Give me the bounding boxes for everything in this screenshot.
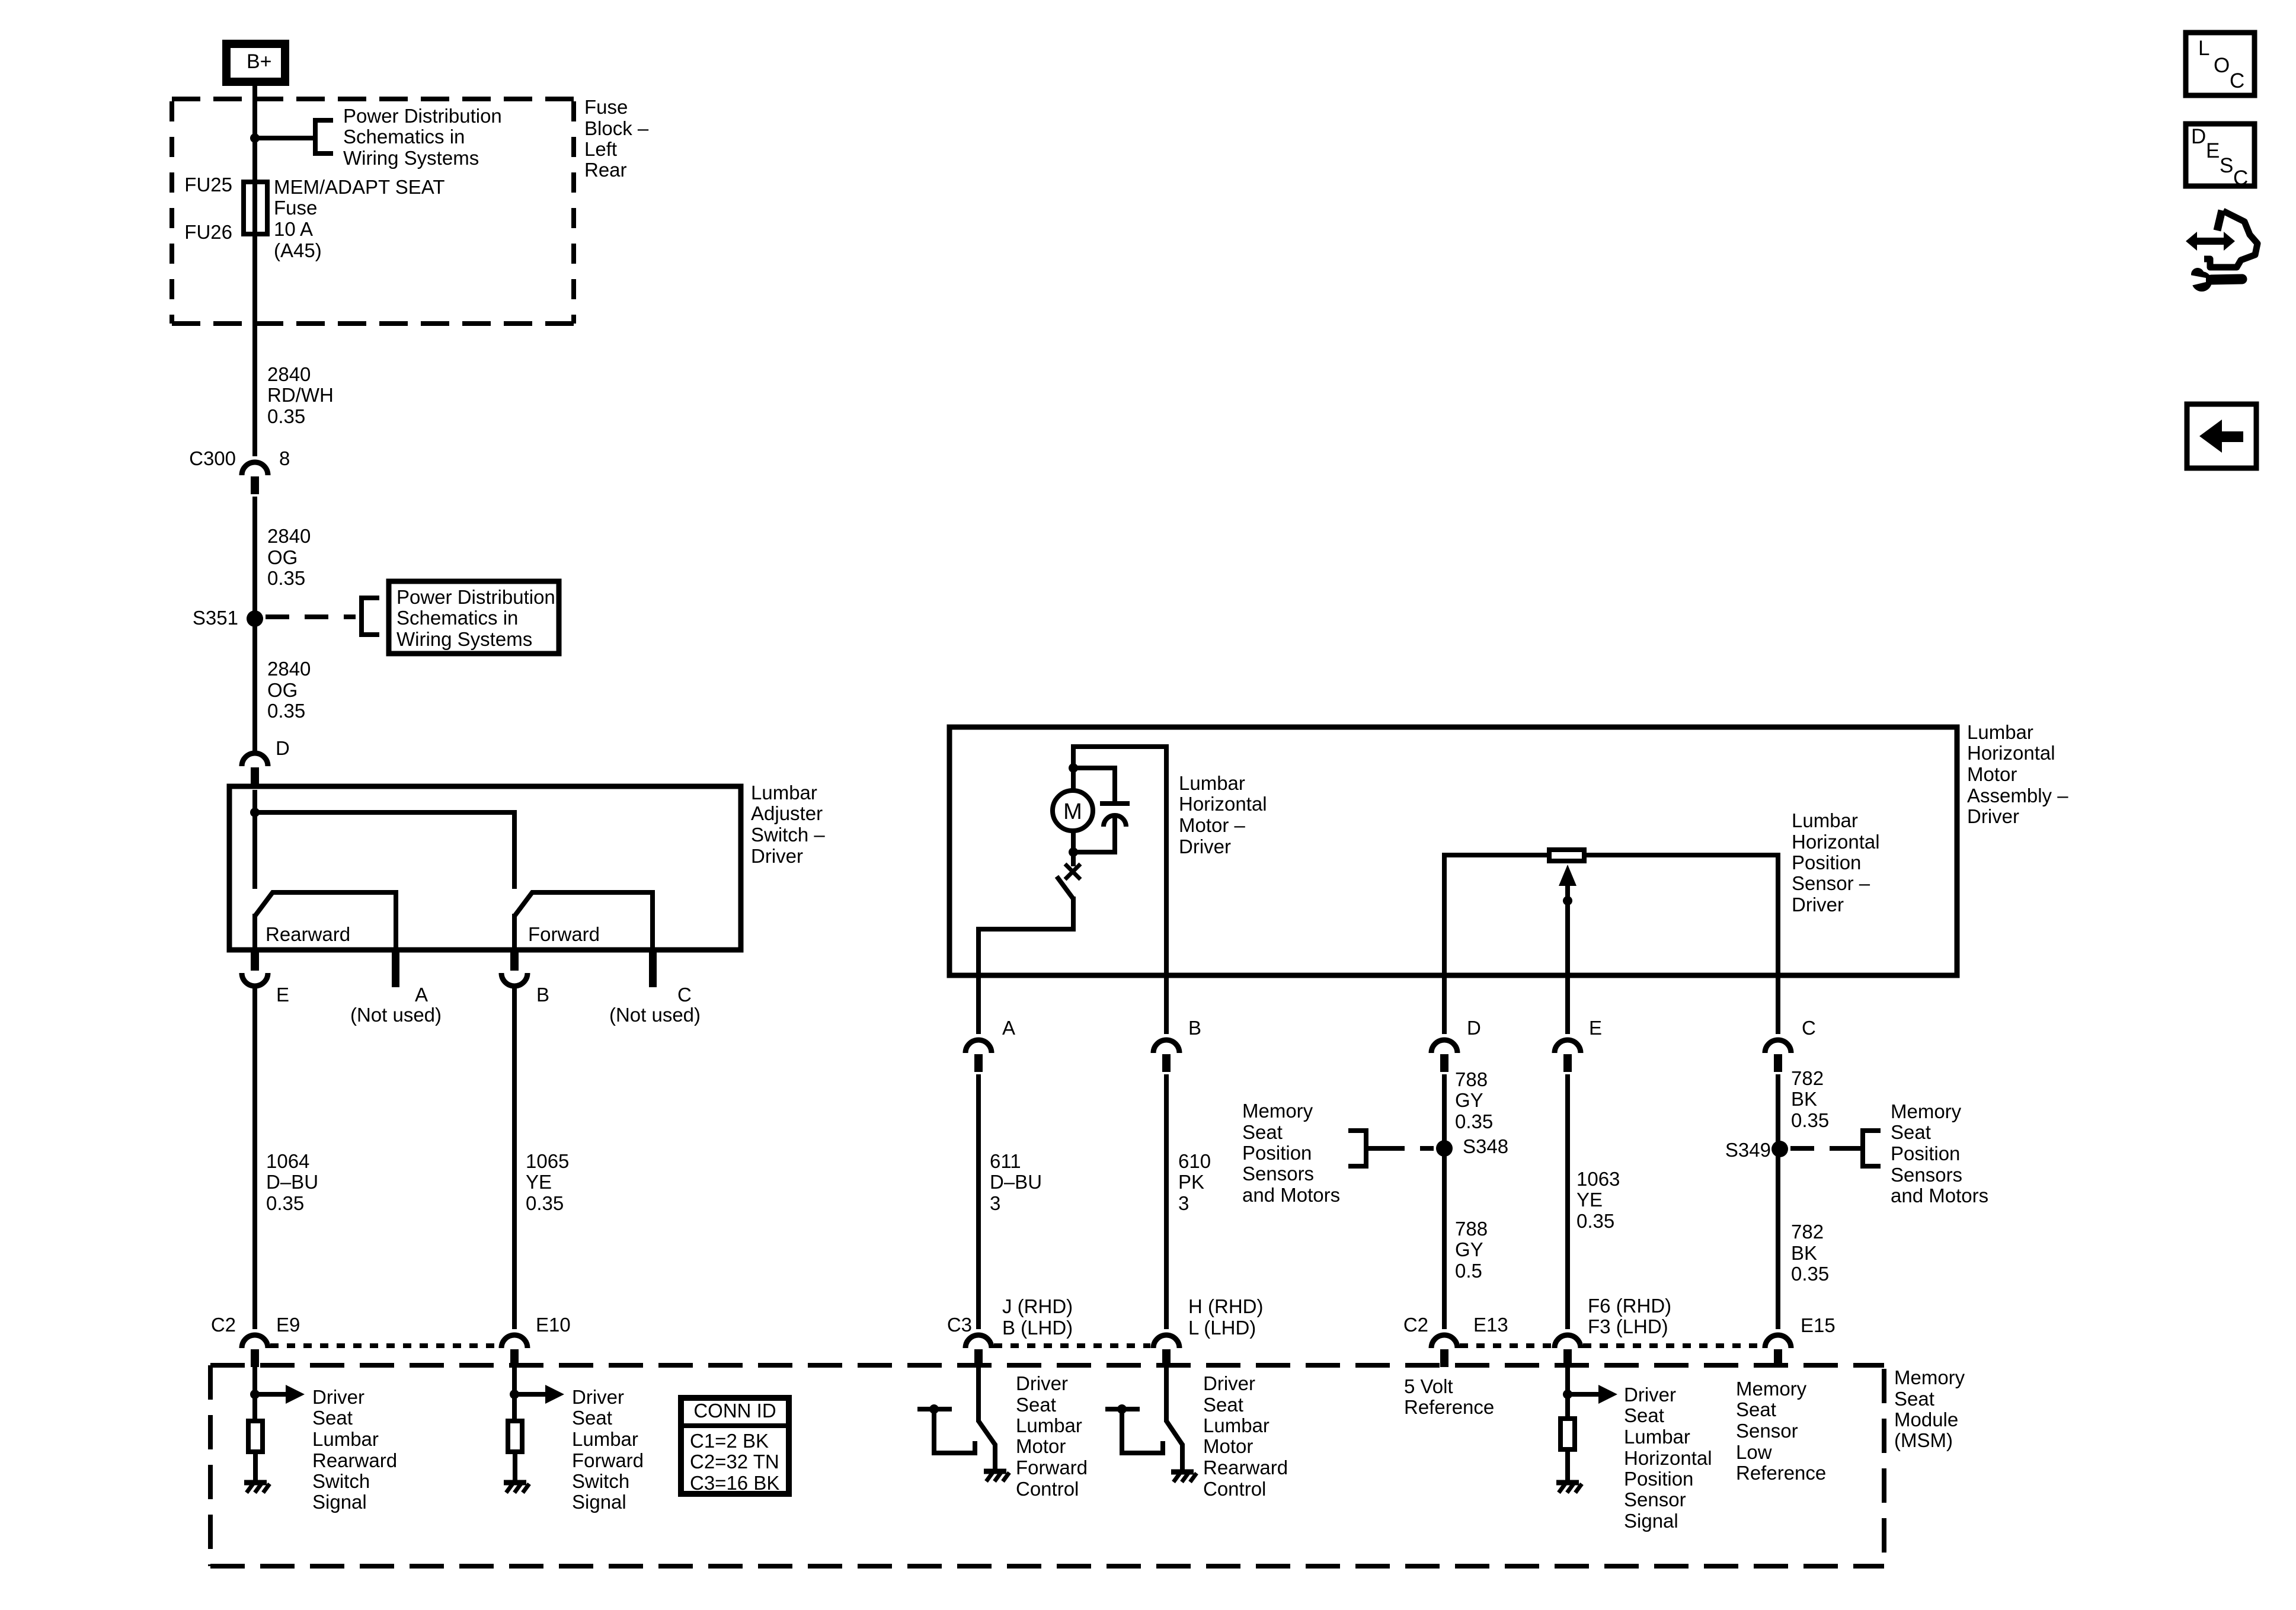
forward blade to pin B: [512, 914, 517, 948]
connector pin D of motor assembly: [1431, 1040, 1457, 1053]
wire B to MSM connector E10: [512, 985, 517, 1329]
wire resistor to ground: [1565, 1452, 1570, 1481]
svg-text:Power Distribution: Power Distribution: [343, 105, 502, 127]
pin A stub (not used): [392, 950, 399, 987]
svg-text:Rearward: Rearward: [312, 1449, 397, 1471]
svg-text:C: C: [2230, 69, 2244, 92]
junction dot E10: [510, 1390, 519, 1399]
svg-text:Lumbar: Lumbar: [1967, 721, 2033, 743]
svg-text:GY: GY: [1455, 1238, 1483, 1260]
B+ battery terminal: [226, 44, 285, 82]
ground E10: [504, 1480, 526, 1486]
svg-text:0.35: 0.35: [1791, 1109, 1829, 1131]
connector pin C of motor assembly: [1765, 1040, 1791, 1053]
circuit breaker thermal element: [1104, 815, 1126, 827]
svg-text:2840: 2840: [267, 363, 311, 385]
svg-text:Sensor: Sensor: [1736, 1420, 1798, 1442]
svg-text:Power Distribution: Power Distribution: [396, 586, 555, 608]
svg-text:0.35: 0.35: [267, 567, 305, 589]
svg-text:Seat: Seat: [1016, 1394, 1056, 1416]
svg-text:Lumbar: Lumbar: [312, 1428, 379, 1450]
svg-text:E: E: [2206, 139, 2220, 162]
svg-text:S: S: [2220, 154, 2233, 177]
wire E to MSM: [1565, 1074, 1570, 1329]
svg-text:OG: OG: [267, 679, 298, 701]
svg-text:(Not used): (Not used): [609, 1004, 701, 1026]
svg-text:Block –: Block –: [584, 117, 649, 139]
svg-text:FU26: FU26: [184, 221, 232, 243]
svg-text:Low: Low: [1736, 1441, 1772, 1463]
svg-text:Driver: Driver: [751, 845, 803, 867]
svg-text:788: 788: [1455, 1068, 1488, 1090]
svg-text:E15: E15: [1801, 1314, 1835, 1336]
svg-text:Memory: Memory: [1736, 1378, 1807, 1400]
svg-text:BK: BK: [1791, 1242, 1817, 1264]
fuse block dashed box: [172, 97, 574, 101]
splice S351: [247, 610, 263, 627]
ground A driver: [984, 1469, 1006, 1474]
svg-text:Module: Module: [1894, 1409, 1958, 1430]
svg-text:D: D: [2191, 125, 2206, 148]
svg-text:Control: Control: [1016, 1478, 1079, 1500]
svg-text:Memory: Memory: [1891, 1100, 1962, 1122]
svg-text:Motor: Motor: [1203, 1435, 1253, 1457]
control gate B: [1117, 1404, 1127, 1414]
lumbar horizontal position sensor - potentiometer: [1549, 850, 1584, 861]
junction dot inside switch: [250, 808, 260, 817]
svg-text:Driver: Driver: [1203, 1372, 1255, 1394]
svg-text:2840: 2840: [267, 658, 311, 680]
connector pin D of lumbar adjuster switch: [242, 753, 268, 766]
svg-text:Rear: Rear: [584, 159, 627, 181]
svg-text:Position: Position: [1891, 1142, 1960, 1164]
svg-text:Lumbar: Lumbar: [1624, 1426, 1690, 1448]
bracket memory seat position sensors (right): [1860, 1128, 1865, 1169]
svg-text:Signal: Signal: [1624, 1510, 1678, 1532]
memory seat module dashed box: [210, 1363, 1884, 1368]
junction dot position sensor signal: [1563, 1390, 1572, 1399]
wire B+ down through fuse block: [252, 86, 257, 456]
svg-text:Lumbar: Lumbar: [1792, 809, 1858, 831]
dashed link S351 to reference bracket: [266, 614, 356, 619]
wire E to MSM connector E9: [252, 985, 257, 1329]
svg-text:L (LHD): L (LHD): [1188, 1317, 1256, 1339]
svg-text:B: B: [1188, 1017, 1201, 1039]
svg-text:Switch: Switch: [312, 1470, 370, 1492]
svg-text:A: A: [1002, 1017, 1015, 1039]
svg-text:782: 782: [1791, 1221, 1824, 1243]
svg-text:BK: BK: [1791, 1088, 1817, 1110]
wire C to MSM: [1776, 1074, 1780, 1329]
svg-text:Reference: Reference: [1736, 1462, 1826, 1484]
wire top to motor: [1071, 744, 1076, 792]
dashed link to S349 bracket: [1790, 1146, 1848, 1151]
rearward blade to pin E: [252, 914, 257, 948]
svg-text:Wiring Systems: Wiring Systems: [343, 147, 479, 169]
svg-text:(MSM): (MSM): [1894, 1429, 1953, 1451]
svg-text:Horizontal: Horizontal: [1792, 831, 1880, 853]
svg-text:E: E: [276, 984, 289, 1006]
svg-text:Lumbar: Lumbar: [1203, 1414, 1269, 1436]
svg-text:CONN ID: CONN ID: [693, 1400, 776, 1422]
svg-text:OG: OG: [267, 546, 298, 568]
arrow driver seat lumbar rearward switch signal: [255, 1392, 287, 1397]
svg-text:(A45): (A45): [274, 239, 322, 261]
svg-text:5 Volt: 5 Volt: [1404, 1375, 1453, 1397]
svg-text:0.5: 0.5: [1455, 1260, 1482, 1282]
svg-text:Switch: Switch: [572, 1470, 629, 1492]
svg-text:Motor: Motor: [1967, 763, 2017, 785]
svg-text:Seat: Seat: [1242, 1121, 1283, 1143]
svg-text:3: 3: [1178, 1192, 1189, 1214]
svg-text:0.35: 0.35: [526, 1192, 564, 1214]
svg-text:1063: 1063: [1576, 1168, 1620, 1190]
svg-text:D–BU: D–BU: [266, 1171, 318, 1193]
wire junction to reference bracket: [255, 136, 315, 140]
junction dot on wiper: [1563, 896, 1572, 905]
svg-text:C300: C300: [189, 447, 236, 469]
svg-text:and Motors: and Motors: [1242, 1184, 1340, 1206]
splice S349: [1771, 1141, 1788, 1157]
svg-text:MEM/ADAPT SEAT: MEM/ADAPT SEAT: [274, 176, 445, 198]
connector pin F6/F3: [1555, 1335, 1581, 1348]
connector pin E of motor assembly: [1555, 1040, 1581, 1053]
svg-text:Lumbar: Lumbar: [1179, 772, 1245, 794]
svg-text:Fuse: Fuse: [274, 197, 317, 219]
svg-text:788: 788: [1455, 1218, 1488, 1240]
svg-text:Left: Left: [584, 138, 617, 160]
resistor E10 pull: [508, 1421, 522, 1452]
svg-text:Switch –: Switch –: [751, 824, 825, 846]
svg-text:Seat: Seat: [1736, 1398, 1776, 1420]
svg-text:Forward: Forward: [528, 923, 600, 945]
svg-text:0.35: 0.35: [267, 405, 305, 427]
svg-text:A: A: [415, 984, 428, 1006]
svg-text:0.35: 0.35: [1576, 1210, 1614, 1232]
svg-text:F3 (LHD): F3 (LHD): [1588, 1315, 1668, 1337]
svg-text:Motor: Motor: [1016, 1435, 1066, 1457]
svg-text:Driver: Driver: [572, 1386, 624, 1408]
svg-text:GY: GY: [1455, 1089, 1483, 1111]
svg-text:C1=2 BK: C1=2 BK: [690, 1430, 769, 1452]
svg-text:B+: B+: [247, 50, 272, 73]
svg-text:Sensors: Sensors: [1242, 1163, 1314, 1185]
connector pin E15: [1765, 1335, 1791, 1348]
motor M - lumbar horizontal motor driver: [1053, 790, 1093, 831]
junction dot in fuse block: [250, 133, 260, 143]
wire resistor to ground: [253, 1454, 258, 1481]
svg-text:Seat: Seat: [1624, 1404, 1664, 1426]
dotted connector line E9-E10: [270, 1343, 499, 1348]
wire blade to pin A: [978, 897, 1073, 1034]
wire E9 into MSM: [252, 1367, 257, 1419]
wire D to MSM: [1442, 1074, 1447, 1329]
svg-text:Signal: Signal: [312, 1491, 367, 1513]
motor switch blade: [1057, 876, 1073, 899]
driver switch blade A (forward control): [978, 1421, 995, 1445]
svg-text:0.35: 0.35: [1791, 1263, 1829, 1285]
wire B to MSM: [1164, 1074, 1169, 1329]
svg-text:J (RHD): J (RHD): [1002, 1295, 1073, 1317]
wire to circuit breaker branch: [1073, 768, 1115, 801]
svg-text:Seat: Seat: [572, 1407, 612, 1429]
svg-text:Seat: Seat: [1203, 1394, 1243, 1416]
junction dot motor top: [1069, 763, 1078, 773]
svg-text:E13: E13: [1473, 1314, 1508, 1336]
svg-text:2840: 2840: [267, 525, 311, 547]
arrow driver seat lumbar horizontal position sensor signal: [1568, 1392, 1600, 1397]
svg-text:Driver: Driver: [1967, 805, 2019, 827]
svg-text:3: 3: [990, 1192, 1000, 1214]
dotted connector line A-B pins: [994, 1343, 1150, 1348]
CONN ID table: [681, 1398, 789, 1494]
svg-text:RD/WH: RD/WH: [267, 384, 334, 406]
svg-text:C: C: [677, 984, 692, 1006]
svg-text:Schematics in: Schematics in: [396, 607, 518, 629]
svg-text:C: C: [2233, 167, 2248, 190]
svg-text:Schematics in: Schematics in: [343, 126, 465, 148]
svg-text:(Not used): (Not used): [350, 1004, 442, 1026]
connector C3 pin J/B: [965, 1335, 992, 1348]
resistor position sensor signal: [1560, 1419, 1575, 1449]
ground position sensor signal: [1556, 1480, 1579, 1486]
svg-text:Seat: Seat: [1894, 1388, 1934, 1410]
dotted connector line F6-E15: [1583, 1343, 1763, 1348]
svg-text:C2=32 TN: C2=32 TN: [690, 1451, 779, 1473]
wire D into switch: [252, 790, 257, 889]
svg-text:Driver: Driver: [1179, 836, 1231, 857]
svg-text:1064: 1064: [266, 1150, 309, 1172]
splice S348: [1436, 1140, 1453, 1157]
svg-text:Reference: Reference: [1404, 1396, 1494, 1418]
connector C300 pin 8: [242, 462, 268, 475]
svg-text:C2: C2: [211, 1314, 236, 1336]
svg-text:B: B: [536, 984, 549, 1006]
svg-text:Horizontal: Horizontal: [1179, 793, 1267, 815]
connector pin A of motor assembly: [965, 1040, 992, 1053]
wire B into MSM: [1164, 1367, 1169, 1422]
fuse FU25/FU26 MEM/ADAPT SEAT 10A: [244, 182, 267, 234]
back arrow: [2199, 420, 2243, 453]
forward switch contact: [514, 892, 653, 948]
svg-text:FU25: FU25: [184, 174, 232, 196]
vehicle adjust icon - car rear outline: [2204, 211, 2257, 267]
svg-text:M: M: [1063, 799, 1082, 824]
svg-text:Rearward: Rearward: [266, 923, 350, 945]
svg-text:C2: C2: [1403, 1314, 1428, 1336]
svg-text:YE: YE: [1576, 1189, 1603, 1211]
svg-text:and Motors: and Motors: [1891, 1185, 1988, 1206]
connector C2 pin E9: [242, 1335, 268, 1348]
wire E10 into MSM: [512, 1367, 517, 1419]
svg-text:782: 782: [1791, 1067, 1824, 1089]
wire C300 to S351: [252, 497, 257, 751]
svg-text:D–BU: D–BU: [990, 1171, 1042, 1193]
svg-text:611: 611: [990, 1150, 1021, 1172]
svg-text:O: O: [2214, 54, 2230, 77]
svg-text:Horizontal: Horizontal: [1624, 1447, 1712, 1469]
connector pin B of motor assembly: [1153, 1040, 1179, 1053]
svg-text:C3: C3: [947, 1314, 972, 1336]
pin C stub (not used): [649, 950, 657, 987]
wire breaker to motor bottom: [1073, 816, 1115, 852]
svg-text:Driver: Driver: [1016, 1372, 1068, 1394]
wire motor top to pin B: [1073, 747, 1166, 1034]
svg-text:S349: S349: [1725, 1139, 1771, 1161]
svg-text:Signal: Signal: [572, 1491, 626, 1513]
driver switch blade B (rearward control): [1166, 1421, 1182, 1445]
svg-text:Sensors: Sensors: [1891, 1164, 1962, 1186]
svg-text:Driver: Driver: [312, 1386, 364, 1408]
connector pin E below switch: [251, 952, 259, 971]
svg-text:Seat: Seat: [1891, 1121, 1931, 1143]
svg-text:Wiring Systems: Wiring Systems: [396, 628, 532, 650]
junction dot E9: [250, 1390, 260, 1399]
wire A to MSM: [976, 1074, 981, 1329]
svg-text:Memory: Memory: [1242, 1100, 1313, 1122]
lumbar horizontal motor assembly box: [949, 727, 1957, 975]
svg-text:Fuse: Fuse: [584, 96, 628, 118]
svg-text:Sensor: Sensor: [1624, 1489, 1686, 1510]
svg-text:E: E: [1589, 1017, 1602, 1039]
svg-text:0.35: 0.35: [1455, 1110, 1493, 1132]
svg-text:E9: E9: [276, 1314, 300, 1336]
bracket memory seat position sensors (left): [1364, 1128, 1368, 1169]
svg-text:Horizontal: Horizontal: [1967, 742, 2055, 764]
junction dot motor bottom: [1069, 847, 1078, 857]
lumbar adjuster switch - driver box: [229, 786, 741, 950]
connector C2 pin E13: [1431, 1335, 1457, 1348]
svg-text:PK: PK: [1178, 1171, 1204, 1193]
svg-text:D: D: [276, 737, 290, 759]
svg-text:Adjuster: Adjuster: [751, 802, 823, 824]
svg-text:F6 (RHD): F6 (RHD): [1588, 1295, 1671, 1317]
svg-text:10 A: 10 A: [274, 218, 313, 240]
wire A into MSM: [976, 1367, 981, 1422]
svg-text:S348: S348: [1463, 1135, 1508, 1157]
svg-text:Driver: Driver: [1792, 894, 1844, 916]
svg-text:Driver: Driver: [1624, 1384, 1676, 1406]
sensor D leg wire: [1444, 855, 1547, 1034]
svg-text:Sensor –: Sensor –: [1792, 872, 1870, 894]
svg-text:0.35: 0.35: [266, 1192, 304, 1214]
svg-text:Rearward: Rearward: [1203, 1457, 1288, 1478]
connector pin B below switch: [510, 952, 519, 971]
connector pin E10: [501, 1335, 527, 1348]
power distribution reference box: [389, 581, 559, 654]
svg-text:H (RHD): H (RHD): [1188, 1295, 1263, 1317]
ground E9: [244, 1480, 267, 1486]
svg-text:L: L: [2198, 37, 2209, 60]
arrow driver seat lumbar forward switch signal: [514, 1392, 546, 1397]
ground B driver: [1171, 1470, 1194, 1475]
resistor E9 pull: [248, 1421, 263, 1452]
svg-text:Assembly –: Assembly –: [1967, 785, 2068, 806]
svg-text:E10: E10: [536, 1314, 571, 1336]
svg-text:610: 610: [1178, 1150, 1211, 1172]
svg-text:Seat: Seat: [312, 1407, 353, 1429]
svg-text:0.35: 0.35: [267, 700, 305, 722]
DESC icon box: [2186, 124, 2255, 186]
svg-text:C3=16 BK: C3=16 BK: [690, 1472, 779, 1494]
vehicle adjust icon - wrench: [2192, 271, 2212, 292]
svg-text:Forward: Forward: [1016, 1457, 1088, 1478]
svg-text:Forward: Forward: [572, 1449, 644, 1471]
bracket to power distribution reference: [313, 118, 318, 156]
svg-text:Motor –: Motor –: [1179, 814, 1246, 836]
svg-text:Position: Position: [1242, 1142, 1312, 1164]
svg-text:Position: Position: [1792, 852, 1861, 873]
svg-text:Position: Position: [1624, 1468, 1693, 1490]
svg-text:D: D: [1467, 1017, 1481, 1039]
svg-text:Lumbar: Lumbar: [751, 782, 817, 804]
control gate A: [929, 1404, 939, 1414]
dashed link to S348 bracket: [1381, 1146, 1434, 1151]
svg-text:8: 8: [279, 447, 290, 469]
svg-text:Memory: Memory: [1894, 1366, 1965, 1388]
wire F6/F3 into MSM: [1565, 1367, 1570, 1416]
svg-text:YE: YE: [526, 1171, 552, 1193]
wire motor to contact point: [1071, 831, 1076, 866]
svg-text:C: C: [1802, 1017, 1816, 1039]
svg-text:B (LHD): B (LHD): [1002, 1317, 1073, 1339]
contact point X: [1065, 864, 1080, 879]
wire junction to forward contact: [255, 812, 514, 889]
sensor wiper arrow: [1559, 865, 1576, 886]
vehicle adjust icon - double arrow: [2186, 232, 2235, 251]
circuit breaker plate: [1100, 801, 1130, 806]
wire resistor to ground: [513, 1454, 517, 1481]
svg-text:S351: S351: [193, 607, 238, 629]
LOC icon box: [2186, 33, 2255, 95]
back arrow icon box: [2187, 404, 2256, 468]
svg-text:Lumbar: Lumbar: [572, 1428, 638, 1450]
svg-text:Control: Control: [1203, 1478, 1266, 1500]
rearward switch contact: [255, 892, 396, 948]
svg-text:1065: 1065: [526, 1150, 569, 1172]
connector pin H/L: [1153, 1335, 1179, 1348]
dotted connector line E13-F6: [1460, 1343, 1552, 1348]
sensor C leg wire: [1587, 855, 1778, 1034]
bracket to power distribution reference box: [359, 596, 364, 637]
svg-text:Lumbar: Lumbar: [1016, 1414, 1082, 1436]
